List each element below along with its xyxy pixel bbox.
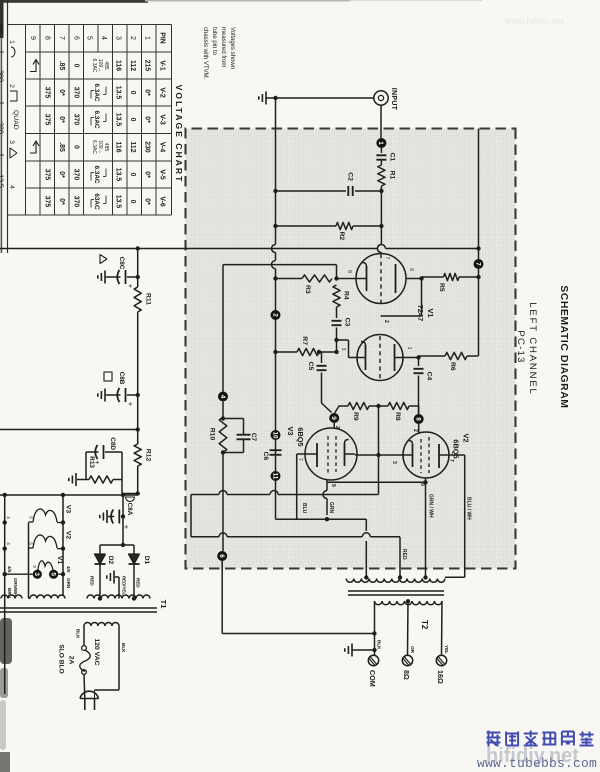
V1b plate node xyxy=(416,355,420,359)
capacitor C8D xyxy=(105,451,122,453)
V2 screen wire to T2 tap xyxy=(425,478,427,578)
junction dots on B+ top wire xyxy=(476,246,480,250)
svg-text:chassis with VTVM.: chassis with VTVM. xyxy=(202,27,208,80)
svg-text:116: 116 xyxy=(115,60,122,71)
svg-text:R7: R7 xyxy=(301,336,308,345)
heater line lower xyxy=(4,495,6,694)
svg-text:measured from: measured from xyxy=(220,27,226,67)
svg-text:BLU: BLU xyxy=(301,503,307,514)
tube V2 6BQ5 xyxy=(403,432,449,478)
wire input jack to node 1 xyxy=(380,105,382,138)
output line x519 to T2 xyxy=(276,518,367,520)
svg-text:D2: D2 xyxy=(107,556,114,565)
heater V1 xyxy=(37,561,53,574)
capacitor C1 xyxy=(380,148,382,153)
svg-text:2: 2 xyxy=(412,429,418,432)
svg-text:6BQ5: 6BQ5 xyxy=(296,427,305,446)
svg-text:6.3AC: 6.3AC xyxy=(91,59,97,73)
AC plug xyxy=(80,691,99,698)
svg-text:5: 5 xyxy=(29,516,34,519)
rail continues to node 6 xyxy=(222,453,224,552)
svg-text:0*: 0* xyxy=(144,89,151,96)
svg-text:215: 215 xyxy=(144,60,151,72)
ground at COM xyxy=(372,648,376,652)
node 11 xyxy=(271,471,281,481)
svg-text:C8A: C8A xyxy=(126,503,133,516)
V3 grid wire from node 9 xyxy=(333,423,335,429)
fuse F1 2A SLO BLO xyxy=(82,646,87,651)
node 8 xyxy=(414,414,424,424)
wire C3 to V1b cathode xyxy=(334,338,338,342)
svg-text:V-6: V-6 xyxy=(159,196,166,207)
svg-text:GRN/WH: GRN/WH xyxy=(13,578,18,596)
V2 screen tee to cathode line xyxy=(423,480,427,484)
filter cap C8B xyxy=(136,393,140,397)
node 6 xyxy=(217,551,227,561)
ground bus wire node2 xyxy=(273,96,277,100)
svg-text:0*: 0* xyxy=(58,116,65,123)
svg-text:INPUT: INPUT xyxy=(390,88,397,111)
svg-text:5: 5 xyxy=(86,36,93,40)
svg-text:V3: V3 xyxy=(286,426,295,435)
svg-text:R4: R4 xyxy=(343,291,350,300)
V3 cathode xyxy=(344,443,346,466)
svg-text:7247: 7247 xyxy=(416,305,425,321)
V1b cathode xyxy=(365,345,367,370)
svg-text:C1: C1 xyxy=(389,153,396,162)
svg-text:9: 9 xyxy=(330,484,336,487)
svg-text:www.tubebbs.com: www.tubebbs.com xyxy=(477,756,597,771)
primary top wire BLK xyxy=(118,626,120,690)
resistor R4 xyxy=(333,285,340,307)
B+ rail y462 xyxy=(137,249,139,288)
V1b grid dashed xyxy=(379,336,381,379)
svg-text:7: 7 xyxy=(474,262,481,266)
heater V2 xyxy=(57,548,63,550)
svg-text:R9: R9 xyxy=(352,412,359,421)
heater connection stubs xyxy=(58,573,63,575)
svg-text:6.3AC: 6.3AC xyxy=(93,110,100,128)
capacitor C4 xyxy=(418,358,420,367)
primary bottom wire to fuse xyxy=(83,626,85,646)
HV centre tap RED/YEL xyxy=(118,577,120,599)
resistor R13 xyxy=(113,479,122,481)
capacitor C3 xyxy=(336,307,338,318)
svg-text:+: + xyxy=(126,284,135,289)
svg-text:10: 10 xyxy=(271,431,278,439)
svg-text:C8B: C8B xyxy=(118,372,125,385)
svg-text:V2: V2 xyxy=(462,433,471,442)
svg-text:0*: 0* xyxy=(58,198,65,205)
svg-text:YEL: YEL xyxy=(444,645,449,654)
svg-text:R6: R6 xyxy=(449,362,456,371)
svg-text:5: 5 xyxy=(49,572,56,576)
svg-text:BLU / WH: BLU / WH xyxy=(466,497,472,520)
resistor R9 grid V3 xyxy=(348,402,369,409)
resistor R1 xyxy=(378,165,385,186)
filter cap C8D and R13 xyxy=(136,491,140,495)
scan edge shadow bottom xyxy=(0,0,4,38)
resistor R10 xyxy=(222,402,224,418)
svg-text:T2: T2 xyxy=(420,620,429,630)
svg-text:RED/YEL: RED/YEL xyxy=(122,576,127,595)
V2 plate xyxy=(438,444,440,468)
heater V3 xyxy=(57,522,63,524)
V1b plate xyxy=(394,344,396,371)
svg-text:4: 4 xyxy=(6,542,11,545)
svg-text:375: 375 xyxy=(44,87,51,99)
T1 HV winding xyxy=(87,595,150,598)
svg-text:1: 1 xyxy=(377,141,384,145)
capacitor C2 xyxy=(355,190,381,192)
svg-text:C2: C2 xyxy=(347,172,354,181)
svg-text:116: 116 xyxy=(115,141,122,152)
svg-text:R1: R1 xyxy=(389,171,396,180)
svg-text:V2: V2 xyxy=(65,531,72,540)
svg-text:C7: C7 xyxy=(250,433,257,442)
svg-text:www.hifidiy.net: www.hifidiy.net xyxy=(504,16,564,26)
resistor R11 xyxy=(134,287,141,312)
PC board dashed outline xyxy=(186,129,516,569)
node 5 heater xyxy=(49,570,58,579)
node 9 xyxy=(329,413,339,423)
svg-text:11: 11 xyxy=(271,473,278,480)
svg-text:SCHEMATIC DIAGRAM: SCHEMATIC DIAGRAM xyxy=(558,285,569,408)
heater winding T1 6.3V xyxy=(30,595,65,598)
node 4 xyxy=(218,392,228,402)
tube V1 7247 envelope section B xyxy=(357,335,403,381)
svg-text:230: 230 xyxy=(144,141,151,153)
svg-text:.85: .85 xyxy=(58,142,65,152)
svg-text:7: 7 xyxy=(58,36,65,40)
svg-text:C6: C6 xyxy=(262,452,269,461)
svg-text:.85: .85 xyxy=(58,61,65,71)
svg-text:6: 6 xyxy=(408,268,414,271)
svg-text:375: 375 xyxy=(44,169,51,181)
marker half circle section A xyxy=(126,497,135,502)
capacitor C7 xyxy=(223,418,244,420)
svg-text:4: 4 xyxy=(219,395,226,399)
svg-text:V1: V1 xyxy=(426,308,435,317)
svg-text:GRN: GRN xyxy=(66,578,71,589)
svg-text:3: 3 xyxy=(8,140,15,144)
T1 lower winding xyxy=(1,595,22,598)
T1 primary winding xyxy=(84,623,119,627)
marker triangle section C xyxy=(100,255,107,264)
svg-text:4/5: 4/5 xyxy=(66,566,71,573)
T1 core xyxy=(0,607,157,609)
svg-text:1: 1 xyxy=(406,347,412,350)
V2 grid wire from node 8 xyxy=(418,424,420,434)
V3 plate xyxy=(316,443,318,467)
svg-text:112: 112 xyxy=(129,141,136,152)
V2 grid dashed lines xyxy=(428,437,430,473)
svg-text:R10: R10 xyxy=(209,428,216,441)
svg-text:3: 3 xyxy=(33,572,40,576)
V3 plate wire BLU xyxy=(297,453,306,455)
input jack J1 xyxy=(374,91,388,105)
svg-text:13.5: 13.5 xyxy=(115,113,122,127)
svg-text:OR: OR xyxy=(410,646,415,654)
resistor R7 xyxy=(319,351,337,353)
svg-text:5: 5 xyxy=(29,542,34,545)
svg-text:D1: D1 xyxy=(143,556,150,565)
resistor R6 xyxy=(467,355,479,357)
svg-text:R11: R11 xyxy=(145,293,152,305)
V3 grid dashed lines xyxy=(335,436,337,472)
svg-text:370: 370 xyxy=(73,87,80,99)
svg-text:VOLTAGE CHART: VOLTAGE CHART xyxy=(174,85,184,184)
svg-text:4: 4 xyxy=(6,516,11,519)
svg-text:BLK: BLK xyxy=(377,640,382,650)
V1a grid dashed xyxy=(380,254,382,303)
svg-text:6: 6 xyxy=(73,36,80,40)
resistor R5 xyxy=(459,276,479,278)
node 1 xyxy=(376,138,386,148)
rectifier join xyxy=(121,543,125,547)
svg-text:+: + xyxy=(126,402,135,407)
svg-text:0*: 0* xyxy=(144,171,151,178)
svg-text:2: 2 xyxy=(383,320,389,323)
V1a cathode xyxy=(366,266,368,291)
voltage chart legend row border xyxy=(7,0,9,253)
svg-text:320: 320 xyxy=(0,122,4,134)
B+ top wire to plate loads xyxy=(478,129,480,265)
svg-text:2A: 2A xyxy=(68,656,75,665)
output transformer T2 primary xyxy=(346,579,445,583)
svg-text:386: 386 xyxy=(0,22,4,34)
svg-text:RED: RED xyxy=(401,549,407,560)
grid return line x264 xyxy=(223,264,337,266)
diode D1 xyxy=(133,545,135,554)
svg-text:112: 112 xyxy=(129,60,136,71)
svg-text:+: + xyxy=(122,525,131,530)
svg-text:BLK: BLK xyxy=(121,643,126,653)
svg-text:R5: R5 xyxy=(438,283,445,292)
svg-text:0: 0 xyxy=(129,91,136,95)
node 2 xyxy=(271,310,281,320)
svg-text:6BQ5: 6BQ5 xyxy=(452,439,461,458)
svg-text:8: 8 xyxy=(44,36,51,40)
svg-text:13.5: 13.5 xyxy=(0,174,4,188)
svg-text:GRN / WH: GRN / WH xyxy=(428,494,434,518)
svg-text:0*: 0* xyxy=(58,171,65,178)
V2 cathode xyxy=(412,444,414,467)
svg-text:8: 8 xyxy=(346,270,352,273)
resistor R12 xyxy=(134,444,141,466)
resistor R8 grid V2 xyxy=(418,406,420,414)
wire to rectifiers xyxy=(122,495,124,545)
svg-text:SLO BLO: SLO BLO xyxy=(58,644,65,673)
cathodes junction wire xyxy=(355,454,403,456)
svg-text:R8: R8 xyxy=(394,412,401,421)
svg-text:1: 1 xyxy=(144,36,151,40)
svg-text:6.3AC: 6.3AC xyxy=(93,165,100,183)
feedback stub to grid return xyxy=(336,265,338,279)
svg-text:C8D: C8D xyxy=(109,437,116,450)
svg-text:GRN: GRN xyxy=(328,502,334,514)
svg-text:V-3: V-3 xyxy=(159,114,166,125)
svg-text:0: 0 xyxy=(129,118,136,122)
svg-text:PC-13: PC-13 xyxy=(515,330,526,363)
tube V3 6BQ5 xyxy=(305,428,357,480)
svg-text:0*: 0* xyxy=(144,198,151,205)
svg-text:2: 2 xyxy=(129,36,136,40)
svg-text:370: 370 xyxy=(73,196,80,208)
svg-text:0*: 0* xyxy=(144,116,151,123)
B+ line vertical x248 xyxy=(385,248,478,250)
svg-text:16Ω: 16Ω xyxy=(436,670,445,684)
svg-text:C5: C5 xyxy=(307,362,314,371)
svg-text:V-2: V-2 xyxy=(159,87,166,98)
svg-text:13.5: 13.5 xyxy=(115,168,122,182)
svg-text:4: 4 xyxy=(8,185,15,189)
svg-text:0: 0 xyxy=(129,200,136,204)
svg-text:R2: R2 xyxy=(338,232,345,241)
svg-text:7: 7 xyxy=(384,257,390,260)
cathode line x495 down xyxy=(278,494,379,496)
svg-text:0: 0 xyxy=(73,145,80,149)
svg-text:13.5: 13.5 xyxy=(115,195,122,209)
svg-text:V1: V1 xyxy=(56,556,63,565)
svg-text:120 VAC: 120 VAC xyxy=(93,638,100,665)
svg-text:V-1: V-1 xyxy=(159,60,166,71)
V1 triode-1 plate junction pin 6 xyxy=(419,276,423,280)
wire jack sleeve to ground xyxy=(266,97,374,99)
svg-text:370: 370 xyxy=(73,114,80,126)
screw terminal 16 ohm xyxy=(436,655,446,665)
svg-text:C4: C4 xyxy=(426,372,433,381)
B+ centre tap line x537 xyxy=(370,536,400,538)
svg-text:9: 9 xyxy=(330,416,337,420)
scan edge shadow left xyxy=(0,0,148,3)
wire R8 R9 junction to cathodes xyxy=(369,405,388,407)
voltage chart grid xyxy=(26,24,172,26)
svg-text:7: 7 xyxy=(297,458,303,461)
node 7 xyxy=(474,259,484,269)
screw terminal COM xyxy=(368,655,378,665)
T2 secondary taps xyxy=(441,601,444,655)
svg-text:13.5: 13.5 xyxy=(115,86,122,100)
screw terminal 8 ohm xyxy=(402,655,412,665)
node 3 heater xyxy=(33,570,42,579)
svg-text:4/5: 4/5 xyxy=(7,566,12,573)
svg-text:BLK: BLK xyxy=(76,629,81,639)
svg-text:LEFT CHANNEL: LEFT CHANNEL xyxy=(527,302,538,395)
svg-text:4: 4 xyxy=(100,36,107,40)
svg-text:R3: R3 xyxy=(304,285,311,294)
wire x429 to bottom edge xyxy=(136,427,140,431)
svg-text:375: 375 xyxy=(44,196,51,208)
svg-text:PIN: PIN xyxy=(159,32,166,44)
resistor R3 cathode xyxy=(337,278,357,280)
T2 secondary xyxy=(375,601,443,605)
svg-text:8Ω: 8Ω xyxy=(402,670,411,680)
svg-text:3: 3 xyxy=(340,348,346,351)
svg-text:375: 375 xyxy=(44,114,51,126)
svg-text:T1: T1 xyxy=(159,600,168,610)
svg-text:6: 6 xyxy=(218,554,225,558)
bias line x495 down xyxy=(0,494,138,496)
wire node 6 to output common xyxy=(221,561,223,634)
printed circuit board shaded area PC-13 xyxy=(186,129,516,569)
svg-text:R12: R12 xyxy=(145,449,152,462)
capacitor C6 in bus xyxy=(270,449,282,451)
V1a plate xyxy=(395,264,397,293)
ground at R13 xyxy=(75,473,77,486)
svg-text:0: 0 xyxy=(129,173,136,177)
watermark CJK forum blue text xyxy=(487,731,594,747)
svg-text:0: 0 xyxy=(73,64,80,68)
tube V1 7247 envelope section A xyxy=(356,254,406,304)
heater line mid xyxy=(28,523,30,599)
svg-text:BRN: BRN xyxy=(7,588,12,599)
svg-text:380: 380 xyxy=(0,70,4,82)
marker square section B xyxy=(104,372,112,381)
svg-text:9: 9 xyxy=(32,565,37,568)
signal wire R1 to V1 grid xyxy=(380,186,382,245)
diode D2 xyxy=(99,545,101,554)
svg-text:Voltages shown: Voltages shown xyxy=(229,27,235,69)
svg-text:RED: RED xyxy=(90,576,95,586)
resistor R2 xyxy=(353,225,381,227)
svg-text:6.3AC: 6.3AC xyxy=(91,140,97,154)
svg-text:7: 7 xyxy=(448,459,454,462)
svg-text:tube pin to: tube pin to xyxy=(211,27,217,56)
heater supply line upper xyxy=(62,495,64,596)
bottom link wire xyxy=(190,495,192,537)
svg-text:9: 9 xyxy=(29,36,36,40)
svg-text:3: 3 xyxy=(391,461,397,464)
svg-text:V-5: V-5 xyxy=(159,169,166,180)
svg-text:1: 1 xyxy=(8,40,15,44)
V2 plate wire BLU/WH to T2 xyxy=(449,454,465,456)
svg-text:370: 370 xyxy=(73,169,80,181)
T2 core xyxy=(348,590,444,592)
filter cap C8C xyxy=(136,275,140,279)
cathode rail wire node4 to node6 xyxy=(222,265,224,392)
svg-text:3: 3 xyxy=(115,36,122,40)
ground at input jack xyxy=(265,92,267,105)
svg-text:2: 2 xyxy=(8,84,15,88)
svg-text:C3: C3 xyxy=(344,318,351,327)
svg-text:COM: COM xyxy=(368,670,377,687)
svg-text:QUAD: QUAD xyxy=(12,110,19,130)
filter cap C8A xyxy=(121,516,123,518)
svg-text:2: 2 xyxy=(271,313,278,317)
direct coupling wire to triode-2 grid pin 2 xyxy=(421,279,423,317)
svg-text:6.3AC: 6.3AC xyxy=(93,83,100,101)
svg-text:8: 8 xyxy=(415,417,422,421)
svg-text:0*: 0* xyxy=(58,89,65,96)
capacitor C5 xyxy=(317,350,321,354)
svg-text:V3: V3 xyxy=(65,505,72,514)
V3 screen wire xyxy=(326,480,328,491)
node 10 xyxy=(271,430,281,440)
svg-text:RED: RED xyxy=(136,578,141,588)
svg-text:63AC: 63AC xyxy=(93,193,100,210)
svg-text:R13: R13 xyxy=(88,456,95,468)
scan blotches bottom right corner xyxy=(0,618,12,664)
svg-text:V-4: V-4 xyxy=(159,142,166,153)
svg-text:C8C: C8C xyxy=(118,257,125,270)
